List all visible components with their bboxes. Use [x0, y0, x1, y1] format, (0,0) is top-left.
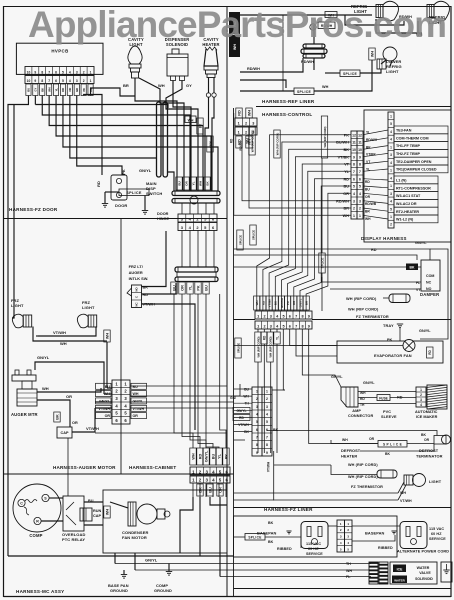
svg-text:1: 1: [238, 130, 240, 134]
svg-text:6: 6: [266, 428, 268, 432]
svg-text:TR1(DAMPER CLOSED: TR1(DAMPER CLOSED: [396, 168, 437, 172]
svg-text:2: 2: [390, 223, 392, 227]
svg-text:1: 1: [390, 215, 392, 219]
svg-text:FRZ LT/: FRZ LT/: [129, 264, 144, 269]
svg-text:VT/WH: VT/WH: [267, 461, 271, 472]
svg-text:WH: WH: [198, 181, 202, 186]
svg-text:S P L I C E: S P L I C E: [383, 443, 402, 447]
svg-text:RD/WB: RD/WB: [365, 202, 377, 206]
svg-text:PK: PK: [344, 133, 350, 137]
svg-text:OR: OR: [180, 285, 184, 291]
svg-text:RD: RD: [239, 416, 244, 420]
svg-text:1: 1: [390, 114, 392, 118]
svg-text:RD: RD: [365, 180, 370, 184]
svg-text:6: 6: [289, 324, 291, 328]
svg-text:5: 5: [282, 324, 284, 328]
svg-text:TE2-DAMPER OPEN: TE2-DAMPER OPEN: [396, 160, 432, 164]
svg-text:7: 7: [295, 314, 297, 318]
svg-text:PK: PK: [224, 454, 228, 460]
svg-text:ICE: ICE: [397, 567, 403, 571]
svg-text:9: 9: [308, 314, 310, 318]
svg-text:GN/YL: GN/YL: [37, 355, 50, 360]
svg-text:RD: RD: [61, 88, 65, 92]
svg-text:VT: VT: [344, 163, 350, 167]
svg-text:WH: WH: [343, 214, 350, 218]
svg-text:WH (RIP CORD): WH (RIP CORD): [268, 336, 272, 357]
svg-text:CONNECTOR: CONNECTOR: [348, 414, 373, 418]
svg-text:WH: WH: [47, 87, 51, 92]
svg-text:WH: WH: [60, 341, 67, 346]
svg-text:YL: YL: [191, 181, 195, 185]
svg-text:YL: YL: [366, 131, 370, 135]
svg-text:9: 9: [266, 451, 268, 455]
svg-text:2: 2: [353, 207, 355, 211]
svg-text:HVPCB: HVPCB: [51, 49, 68, 54]
svg-text:VT/WH: VT/WH: [238, 423, 249, 427]
svg-text:1: 1: [257, 314, 259, 318]
svg-text:OR: OR: [424, 438, 430, 442]
svg-text:DOOR: DOOR: [115, 203, 127, 208]
svg-text:DEFROST: DEFROST: [419, 448, 439, 453]
svg-text:GN/YL: GN/YL: [298, 298, 302, 307]
svg-text:SERVICE: SERVICE: [306, 552, 323, 556]
svg-text:FZ THERMISTOR: FZ THERMISTOR: [356, 314, 389, 319]
svg-text:BK: BK: [366, 145, 371, 149]
svg-text:YL: YL: [54, 88, 58, 92]
svg-text:3: 3: [353, 199, 355, 203]
svg-text:YL: YL: [344, 170, 350, 174]
svg-text:PK: PK: [121, 169, 126, 175]
svg-text:7: 7: [48, 79, 50, 83]
svg-text:1: 1: [266, 389, 268, 393]
svg-text:RD/WH: RD/WH: [366, 138, 378, 142]
svg-text:RD/WH: RD/WH: [336, 199, 349, 203]
svg-text:3: 3: [390, 192, 392, 196]
svg-text:5: 5: [62, 70, 64, 74]
svg-text:9: 9: [34, 70, 36, 74]
svg-text:RD: RD: [237, 110, 241, 116]
svg-text:OR: OR: [72, 421, 78, 425]
svg-text:8: 8: [41, 70, 43, 74]
svg-text:WH: WH: [105, 333, 109, 340]
svg-text:BU: BU: [133, 385, 139, 389]
svg-text:VT/WH: VT/WH: [53, 330, 66, 335]
svg-text:WH: WH: [370, 51, 374, 58]
svg-text:WH: WH: [247, 110, 251, 117]
svg-text:BK: BK: [268, 521, 274, 525]
svg-text:3: 3: [420, 398, 422, 402]
svg-text:2: 2: [83, 79, 85, 83]
svg-text:HARNESS-CABINET: HARNESS-CABINET: [129, 465, 176, 470]
svg-text:WH (RIP CORD): WH (RIP CORD): [348, 475, 378, 479]
svg-text:3: 3: [390, 153, 392, 157]
svg-text:2: 2: [266, 397, 268, 401]
svg-text:EVAPORATOR FAN: EVAPORATOR FAN: [374, 353, 412, 358]
svg-text:2: 2: [359, 207, 361, 211]
svg-text:TH: TH: [346, 562, 351, 566]
svg-text:ALTERNATE POWER CORD: ALTERNATE POWER CORD: [397, 550, 449, 554]
svg-text:SPLICE: SPLICE: [126, 191, 142, 195]
svg-text:4: 4: [390, 130, 392, 134]
svg-text:COM: COM: [426, 274, 434, 278]
svg-text:5: 5: [359, 185, 361, 189]
svg-text:VT/BK: VT/BK: [338, 155, 350, 159]
svg-text:YL: YL: [217, 453, 221, 459]
svg-text:WH (RIP CORD): WH (RIP CORD): [256, 336, 260, 357]
svg-text:VT: VT: [366, 160, 370, 164]
svg-text:4: 4: [390, 138, 392, 142]
svg-text:GN/YL: GN/YL: [204, 450, 208, 462]
svg-text:GN/YL: GN/YL: [139, 168, 152, 173]
svg-text:4: 4: [390, 200, 392, 204]
svg-text:OR: OR: [105, 414, 111, 418]
svg-text:BU/WH: BU/WH: [280, 298, 284, 308]
svg-text:9: 9: [256, 451, 258, 455]
svg-text:2: 2: [245, 121, 247, 125]
svg-text:1: 1: [256, 389, 258, 393]
svg-text:PTC RELAY: PTC RELAY: [62, 537, 85, 542]
svg-text:BK: BK: [421, 433, 426, 437]
svg-text:FAN MOTOR: FAN MOTOR: [122, 535, 147, 540]
svg-text:OR: OR: [343, 192, 349, 196]
svg-text:8: 8: [353, 163, 355, 167]
svg-text:RT1-COMPRESSOR: RT1-COMPRESSOR: [396, 186, 431, 190]
svg-text:60 HZ: 60 HZ: [431, 532, 442, 536]
svg-text:HARNESS-FZ LINER: HARNESS-FZ LINER: [264, 507, 313, 512]
svg-text:BR: BR: [75, 88, 79, 92]
svg-text:ICE MAKER: ICE MAKER: [416, 415, 438, 419]
svg-text:RIBBED: RIBBED: [378, 546, 393, 550]
svg-text:WH (RIP CORD): WH (RIP CORD): [323, 126, 327, 147]
svg-text:4: 4: [69, 70, 71, 74]
svg-text:CAP: CAP: [93, 514, 101, 518]
svg-text:BK: BK: [244, 430, 249, 434]
svg-text:BU: BU: [365, 188, 370, 192]
svg-text:TH: TH: [244, 402, 249, 406]
svg-text:RIBBED: RIBBED: [277, 547, 292, 551]
svg-text:4: 4: [420, 403, 422, 407]
svg-text:GN/YL: GN/YL: [331, 375, 343, 379]
svg-text:1: 1: [353, 214, 355, 218]
svg-text:1: 1: [257, 324, 259, 328]
svg-text:3: 3: [76, 79, 78, 83]
svg-text:W3-AC1 STAT: W3-AC1 STAT: [396, 194, 421, 198]
svg-text:5: 5: [353, 185, 355, 189]
svg-text:RD: RD: [262, 335, 266, 340]
svg-text:3: 3: [256, 405, 258, 409]
svg-text:SPLICE: SPLICE: [236, 343, 240, 353]
svg-text:SPLICE: SPLICE: [297, 90, 311, 94]
svg-text:R: R: [36, 520, 39, 524]
svg-text:8: 8: [41, 79, 43, 83]
svg-text:OR: OR: [365, 195, 371, 199]
svg-text:W4-AC2 DR: W4-AC2 DR: [396, 202, 417, 206]
svg-text:BK: BK: [410, 266, 415, 270]
svg-text:GN/YL: GN/YL: [236, 409, 246, 413]
svg-text:OR: OR: [133, 414, 139, 418]
svg-text:COM-THERM COM: COM-THERM COM: [396, 136, 429, 140]
svg-text:SPLICE: SPLICE: [238, 235, 242, 245]
svg-text:6: 6: [359, 177, 361, 181]
svg-text:OR: OR: [66, 394, 72, 399]
svg-text:BK: BK: [268, 540, 274, 544]
svg-text:RD: RD: [261, 301, 265, 305]
svg-text:RUN: RUN: [93, 509, 101, 513]
svg-text:PK: PK: [82, 88, 86, 92]
svg-text:2: 2: [263, 314, 265, 318]
svg-text:3: 3: [252, 121, 254, 125]
svg-text:NO: NO: [426, 287, 432, 291]
svg-text:4: 4: [256, 412, 258, 416]
svg-text:DOOR: DOOR: [157, 212, 169, 216]
svg-text:SPLICE: SPLICE: [248, 536, 261, 540]
svg-text:1: 1: [238, 121, 240, 125]
svg-text:WH (RIP CORD): WH (RIP CORD): [348, 307, 379, 312]
svg-text:BU: BU: [344, 185, 350, 189]
svg-text:8: 8: [301, 324, 303, 328]
svg-text:5: 5: [266, 420, 268, 424]
svg-text:8: 8: [266, 443, 268, 447]
svg-text:1: 1: [90, 79, 92, 83]
svg-text:COMP: COMP: [29, 533, 42, 538]
svg-text:5: 5: [390, 122, 392, 126]
svg-text:AppliancePartsPros.com: AppliancePartsPros.com: [28, 4, 446, 45]
svg-text:1: 1: [359, 214, 361, 218]
svg-text:PK: PK: [196, 285, 200, 291]
svg-text:1: 1: [390, 169, 392, 173]
svg-text:TH2-FZ TEMP: TH2-FZ TEMP: [396, 152, 421, 156]
svg-text:6: 6: [55, 79, 57, 83]
svg-text:BU: BU: [211, 454, 215, 460]
svg-text:VT/WH: VT/WH: [400, 499, 412, 503]
svg-text:7: 7: [266, 435, 268, 439]
svg-text:GROUND: GROUND: [110, 588, 128, 593]
svg-text:2: 2: [245, 130, 247, 134]
svg-text:GN/: GN/: [230, 396, 236, 400]
svg-text:10: 10: [358, 148, 362, 152]
svg-text:FUSE: FUSE: [379, 396, 388, 400]
svg-text:RD: RD: [344, 177, 350, 181]
svg-text:W1-L2 (N): W1-L2 (N): [396, 218, 414, 222]
svg-text:3: 3: [270, 314, 272, 318]
svg-text:WH (RIP CORD): WH (RIP CORD): [250, 130, 254, 152]
svg-text:9: 9: [359, 155, 361, 159]
svg-text:60 HZ: 60 HZ: [308, 547, 319, 551]
svg-text:BU: BU: [177, 181, 181, 185]
svg-text:7: 7: [48, 70, 50, 74]
svg-text:YL: YL: [275, 336, 279, 340]
svg-text:C: C: [20, 502, 23, 506]
svg-text:INTLK SW.: INTLK SW.: [129, 276, 149, 281]
svg-text:5: 5: [256, 420, 258, 424]
svg-text:SPLICE: SPLICE: [251, 230, 255, 240]
svg-text:BU: BU: [274, 301, 278, 305]
svg-text:4: 4: [359, 192, 361, 196]
svg-text:BK: BK: [273, 428, 279, 432]
svg-text:BU/WH: BU/WH: [336, 141, 349, 145]
svg-text:BK: BK: [385, 452, 390, 456]
svg-text:RD: RD: [198, 454, 202, 460]
svg-text:6: 6: [256, 428, 258, 432]
svg-text:SPLICE: SPLICE: [343, 72, 357, 76]
svg-text:1: 1: [390, 184, 392, 188]
svg-text:WATER: WATER: [394, 578, 405, 582]
svg-text:WH: WH: [42, 386, 49, 391]
svg-text:NO: NO: [135, 287, 139, 292]
svg-text:GN/YL: GN/YL: [208, 140, 212, 148]
svg-text:SOLENOID: SOLENOID: [415, 577, 433, 581]
svg-text:WH: WH: [342, 438, 348, 442]
svg-text:VT/WH: VT/WH: [86, 426, 99, 431]
svg-text:3: 3: [270, 324, 272, 328]
svg-text:4: 4: [390, 176, 392, 180]
svg-text:BASEPAN: BASEPAN: [365, 531, 385, 536]
svg-text:WH: WH: [188, 118, 194, 122]
svg-text:2: 2: [256, 397, 258, 401]
svg-text:WH: WH: [191, 453, 195, 460]
svg-text:5: 5: [282, 314, 284, 318]
svg-text:HARNESS-CONTROL: HARNESS-CONTROL: [262, 112, 312, 117]
svg-text:GY: GY: [186, 83, 192, 88]
svg-text:AUGER MTR: AUGER MTR: [11, 412, 38, 417]
svg-text:4: 4: [390, 161, 392, 165]
svg-text:RD/WH: RD/WH: [247, 67, 260, 71]
svg-text:RD: RD: [230, 138, 234, 143]
svg-text:9: 9: [353, 155, 355, 159]
svg-text:HARNESS-AUGER MOTOR: HARNESS-AUGER MOTOR: [53, 465, 116, 470]
svg-text:PK: PK: [387, 338, 393, 342]
svg-text:CAP: CAP: [60, 431, 68, 435]
svg-text:6: 6: [289, 314, 291, 318]
svg-text:2: 2: [83, 70, 85, 74]
svg-text:11: 11: [358, 141, 362, 145]
svg-text:VT/BK: VT/BK: [366, 153, 377, 157]
svg-text:8: 8: [256, 443, 258, 447]
svg-text:HEATER: HEATER: [341, 454, 357, 459]
svg-text:4: 4: [353, 192, 355, 196]
svg-text:GN/YL: GN/YL: [415, 241, 427, 245]
svg-text:9: 9: [308, 324, 310, 328]
svg-text:TERMINATOR: TERMINATOR: [416, 454, 443, 459]
svg-text:WH: WH: [158, 83, 165, 88]
svg-text:8: 8: [359, 163, 361, 167]
svg-text:LIGHT: LIGHT: [386, 69, 399, 74]
svg-text:GN/YL: GN/YL: [145, 558, 158, 563]
svg-text:1: 1: [420, 388, 422, 392]
svg-text:6: 6: [353, 177, 355, 181]
svg-text:BU: BU: [204, 285, 208, 291]
svg-text:WH: WH: [322, 85, 329, 89]
svg-text:WH: WH: [105, 509, 109, 516]
svg-text:VT/WH: VT/WH: [133, 407, 145, 411]
svg-text:6: 6: [55, 70, 57, 74]
svg-text:FZ THERMISTOR: FZ THERMISTOR: [351, 485, 383, 489]
svg-text:9: 9: [34, 79, 36, 83]
svg-text:TE3-FAN: TE3-FAN: [396, 129, 412, 133]
svg-text:OR: OR: [369, 437, 375, 441]
svg-text:DAMPER: DAMPER: [420, 292, 439, 297]
svg-text:VT/BK: VT/BK: [268, 298, 272, 308]
svg-text:RD: RD: [428, 350, 432, 355]
svg-text:BU: BU: [244, 388, 249, 392]
svg-text:5: 5: [62, 79, 64, 83]
svg-text:WH (RIP CORD): WH (RIP CORD): [275, 133, 279, 155]
svg-text:DEFROST: DEFROST: [341, 448, 361, 453]
svg-text:OR: OR: [68, 88, 72, 92]
svg-text:7: 7: [359, 170, 361, 174]
svg-text:10: 10: [352, 148, 356, 152]
svg-text:WATER: WATER: [417, 566, 430, 570]
svg-text:11: 11: [352, 141, 356, 145]
svg-text:GN/YL: GN/YL: [363, 381, 375, 385]
svg-text:10: 10: [27, 79, 31, 83]
svg-text:BU: BU: [27, 88, 31, 92]
svg-text:LIGHT: LIGHT: [429, 479, 442, 484]
svg-text:GROUND: GROUND: [154, 588, 172, 593]
svg-text:HARNESS-REF LINER: HARNESS-REF LINER: [262, 99, 315, 104]
svg-text:SLEEVE: SLEEVE: [381, 415, 397, 419]
svg-text:VALVE: VALVE: [419, 571, 431, 575]
svg-text:12: 12: [358, 133, 362, 137]
svg-text:RD: RD: [96, 181, 101, 187]
svg-text:YL: YL: [188, 285, 192, 291]
svg-text:HARNESS-MC ASSY: HARNESS-MC ASSY: [16, 589, 65, 594]
svg-text:BK: BK: [55, 414, 59, 420]
svg-text:TRAY: TRAY: [383, 323, 394, 328]
svg-text:YL: YL: [366, 167, 370, 171]
svg-text:LIGHT: LIGHT: [11, 303, 24, 308]
svg-text:BR: BR: [344, 207, 350, 211]
svg-text:10: 10: [27, 70, 31, 74]
svg-text:7: 7: [256, 435, 258, 439]
svg-text:GN/YL: GN/YL: [419, 329, 431, 333]
svg-text:NC: NC: [426, 281, 432, 285]
svg-text:WH: WH: [255, 301, 259, 306]
svg-text:BK: BK: [344, 148, 350, 152]
svg-text:1: 1: [390, 145, 392, 149]
svg-text:AUTOMATIC: AUTOMATIC: [415, 410, 438, 414]
svg-text:12: 12: [352, 133, 356, 137]
svg-text:TH1-FF TEMP: TH1-FF TEMP: [396, 144, 421, 148]
svg-text:SERVICE: SERVICE: [429, 537, 446, 541]
svg-text:BR: BR: [365, 210, 370, 214]
svg-text:7: 7: [353, 170, 355, 174]
svg-text:AUGER: AUGER: [129, 270, 143, 275]
svg-text:GN/YL: GN/YL: [133, 400, 145, 404]
svg-text:3: 3: [266, 405, 268, 409]
svg-text:5: 5: [390, 207, 392, 211]
svg-text:PVC: PVC: [383, 410, 391, 414]
svg-text:115 VAC: 115 VAC: [429, 527, 444, 531]
svg-text:RT2-HEATER: RT2-HEATER: [396, 210, 419, 214]
svg-text:WH: WH: [365, 217, 371, 221]
svg-text:WH (RIP CORD): WH (RIP CORD): [346, 296, 377, 301]
svg-text:3: 3: [76, 70, 78, 74]
svg-text:L1 (N): L1 (N): [396, 179, 407, 183]
svg-text:7: 7: [295, 324, 297, 328]
svg-text:HARNESS-FZ DOOR: HARNESS-FZ DOOR: [9, 207, 58, 212]
svg-text:WH (RIP CORD): WH (RIP CORD): [348, 463, 378, 467]
svg-text:HINGE: HINGE: [157, 217, 169, 221]
svg-text:BR: BR: [123, 83, 129, 88]
svg-text:115 VAC: 115 VAC: [306, 542, 321, 546]
svg-text:GY: GY: [34, 88, 38, 92]
svg-text:8: 8: [301, 314, 303, 318]
svg-text:2: 2: [420, 393, 422, 397]
svg-text:1: 1: [90, 70, 92, 74]
svg-text:2: 2: [263, 324, 265, 328]
svg-text:4: 4: [266, 412, 268, 416]
